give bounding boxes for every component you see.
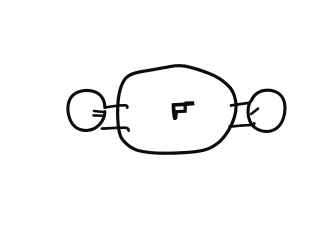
wire upper-right <box>231 103 250 106</box>
left tick upper (inside left circle) <box>94 111 103 112</box>
right tick (inside right circle) <box>251 109 258 114</box>
wire lower-right <box>230 123 255 126</box>
pistol icon inside blob <box>172 101 195 120</box>
left tick lower (inside left circle) <box>94 114 103 117</box>
wire upper-left <box>105 105 127 107</box>
left circle <box>68 90 105 130</box>
central blob body <box>118 66 236 154</box>
wire lower-left <box>102 128 129 131</box>
right circle <box>248 90 285 131</box>
